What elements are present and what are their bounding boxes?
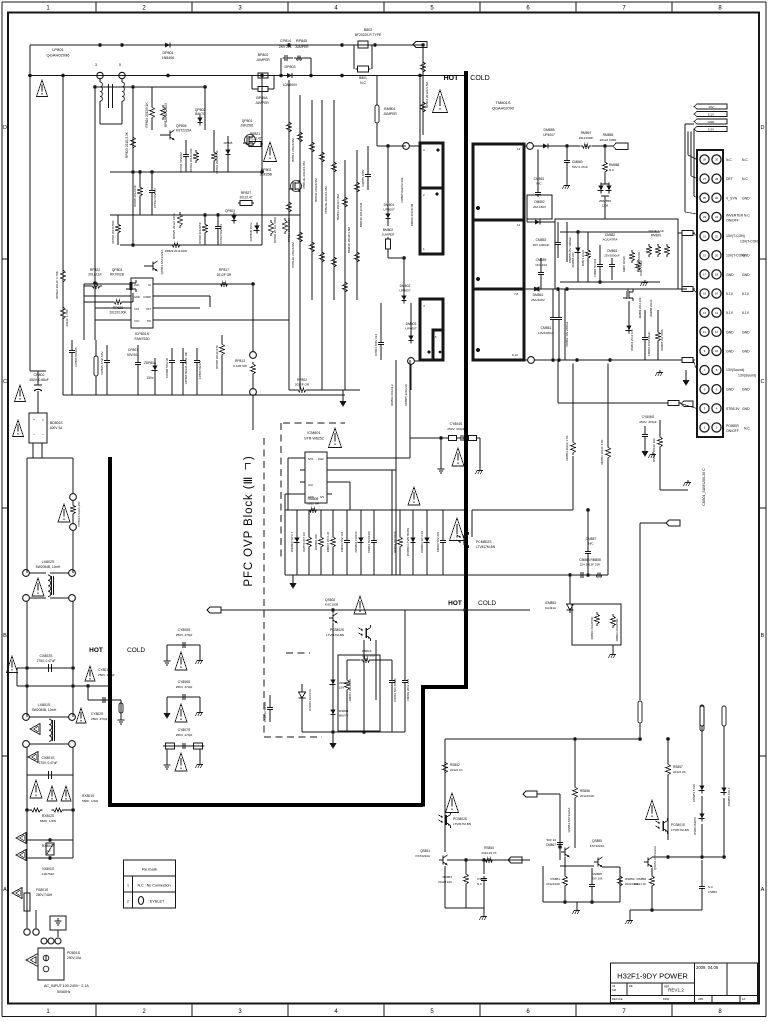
svg-text:ZDM856 24V: ZDM856 24V xyxy=(571,252,575,268)
svg-text:RM756 807 1/8: RM756 807 1/8 xyxy=(302,532,306,552)
svg-text:SW2054B, 12mH: SW2054B, 12mH xyxy=(32,708,57,712)
svg-text:APR: APR xyxy=(698,997,703,1001)
svg-text:15Vz: 15Vz xyxy=(146,376,154,380)
svg-text:CX802S: CX802S xyxy=(39,654,53,658)
wire xyxy=(333,100,335,300)
svg-text:□: □ xyxy=(42,418,44,422)
svg-text:RP836 2012F/56K: RP836 2012F/56K xyxy=(111,220,115,243)
eyelet (chain B) xyxy=(722,706,726,786)
capacitor CM851 xyxy=(534,149,545,197)
thermistor NT801S xyxy=(70,494,81,531)
transistor QM801 xyxy=(623,289,653,318)
svg-text:GND: GND xyxy=(742,196,750,200)
wire xyxy=(375,640,377,700)
resistor RP802 xyxy=(289,378,360,392)
component CM801 xyxy=(367,510,377,575)
diode DS801 xyxy=(330,707,348,718)
svg-text:Drain: Drain xyxy=(318,458,325,461)
svg-text:N.C: N.C xyxy=(477,882,482,886)
svg-text:COLD: COLD xyxy=(478,600,496,607)
svg-text:RS859: RS859 xyxy=(625,877,635,881)
resistor RP824 xyxy=(145,87,154,130)
svg-text:CP814: CP814 xyxy=(280,39,291,43)
diode DM861 xyxy=(531,286,546,302)
svg-text:RS890 2012F 10K: RS890 2012F 10K xyxy=(652,438,656,462)
svg-text:~: ~ xyxy=(33,433,35,437)
svg-text:CP805 47uF 50V: CP805 47uF 50V xyxy=(100,351,104,374)
svg-text:RM862 2012F50K: RM862 2012F50K xyxy=(615,619,619,642)
svg-text:2SK2581: 2SK2581 xyxy=(240,124,253,128)
net tag (13V) xyxy=(613,143,628,150)
wire bus (ICM801 upper) xyxy=(285,509,465,511)
svg-text:N.C: N.C xyxy=(708,885,713,889)
svg-text:QP804 KST2222A: QP804 KST2222A xyxy=(160,250,164,275)
svg-text:RM855: RM855 xyxy=(603,133,614,137)
wire ICM801 left xyxy=(285,458,300,510)
svg-text:2012F 4.70K: 2012F 4.70K xyxy=(65,309,69,326)
warning marks (RX group) xyxy=(30,780,71,801)
svg-text:250V,T4AH: 250V,T4AH xyxy=(36,893,53,897)
svg-text:RP826 2012/223: RP826 2012/223 xyxy=(164,103,168,127)
svg-text:224 2012F 22K: 224 2012F 22K xyxy=(580,563,601,567)
svg-text:RM86B 2012F: RM86B 2012F xyxy=(649,299,653,317)
svg-text:QS853 KST2222A: QS853 KST2222A xyxy=(567,808,571,833)
svg-text:RP830 20 EU 600K: RP830 20 EU 600K xyxy=(273,217,277,243)
capacitor CM865 xyxy=(589,868,603,902)
warning mark (CY806S) xyxy=(175,704,187,722)
warning mark (CP802) xyxy=(15,385,26,402)
svg-text:1: 1 xyxy=(127,884,129,888)
svg-text:C: C xyxy=(761,379,765,385)
svg-text:N.C: N.C xyxy=(726,158,732,162)
warning mark (FS801S) xyxy=(12,888,22,899)
svg-text:BM84C 2012F1.5M: BM84C 2012F1.5M xyxy=(347,226,351,253)
jumper BP80A xyxy=(252,76,274,106)
resistor chain BM84D xyxy=(355,180,363,264)
svg-text:DP803: DP803 xyxy=(285,65,296,69)
capacitor CP814 xyxy=(279,55,293,77)
svg-text:2012F OR: 2012F OR xyxy=(295,383,310,387)
svg-text:DRW: DRW xyxy=(663,997,670,1001)
diode DM851 xyxy=(527,219,555,225)
svg-text:10A 600V: 10A 600V xyxy=(283,83,298,87)
ic ICM853 KA431A xyxy=(545,575,574,613)
dashed block border xyxy=(264,423,345,737)
resistor RS853 xyxy=(438,860,468,908)
wire bus (ICM801 lower) xyxy=(285,574,465,576)
svg-text:DI: DI xyxy=(148,283,151,287)
HOT label (top) xyxy=(444,75,460,82)
resistor RS859 xyxy=(618,874,639,888)
svg-text:JUMPER: JUMPER xyxy=(383,112,397,116)
transistor QS802 xyxy=(325,598,339,623)
diode DM855 xyxy=(533,128,580,149)
svg-text:RS857: RS857 xyxy=(673,765,683,769)
ground arrow (conn rail) xyxy=(683,370,690,386)
svg-text:2012J 2K: 2012J 2K xyxy=(673,770,686,774)
capacitor CM867 xyxy=(546,838,563,849)
svg-text:PFC OVP Block (Ⅲ ㄱ): PFC OVP Block (Ⅲ ㄱ) xyxy=(243,455,255,586)
svg-text:UP4007: UP4007 xyxy=(399,289,410,293)
svg-text:GND: GND xyxy=(742,330,750,334)
svg-text:RP821: RP821 xyxy=(250,132,260,136)
svg-text:KA431A: KA431A xyxy=(545,606,556,610)
wire RM805 xyxy=(392,360,410,575)
svg-text:CY806G: CY806G xyxy=(642,415,655,419)
ground (CY804S left) xyxy=(438,436,445,473)
svg-text:RM869 2012-100: RM869 2012-100 xyxy=(638,297,642,318)
svg-text:RP822: RP822 xyxy=(90,268,100,272)
resistor (conn row5) xyxy=(680,231,697,237)
resistor chain BP8F6 xyxy=(421,45,429,135)
svg-text:FAN7530: FAN7530 xyxy=(135,337,150,341)
svg-text:RM868: RM868 xyxy=(609,163,620,167)
resistor (conn row14) xyxy=(666,401,697,409)
wire (GND rail) xyxy=(534,358,667,362)
svg-text:CM863: CM863 xyxy=(607,249,618,253)
svg-text:BP846 2012F/1M: BP846 2012F/1M xyxy=(314,178,318,202)
AC_INPUT label xyxy=(44,984,89,994)
wire xyxy=(356,150,358,300)
svg-text:RM871 1/8W: RM871 1/8W xyxy=(639,260,643,276)
jumper pill (PFC bus) xyxy=(94,340,98,395)
wire ICM801 vcc xyxy=(332,430,396,470)
svg-text:VCC: VCC xyxy=(308,484,313,487)
zener ZDM856 xyxy=(571,232,581,282)
wires flags to connector xyxy=(685,124,697,214)
resistor RM855 xyxy=(592,133,617,146)
svg-text:BM801: BM801 xyxy=(384,107,395,111)
svg-text:2012J 1K: 2012J 1K xyxy=(450,768,463,772)
svg-text:RM856 2012F 6.8K: RM856 2012F 6.8K xyxy=(600,439,604,464)
svg-text:CY807S: CY807S xyxy=(178,728,191,732)
svg-text:GND: GND xyxy=(742,388,750,392)
svg-text:ZDM801 N/C: ZDM801 N/C xyxy=(314,534,318,550)
eyelet (right) xyxy=(700,705,704,752)
jumper BP802 xyxy=(256,53,270,78)
svg-text:25V 106: 25V 106 xyxy=(592,877,603,881)
svg-text:PP813E 2012F/2M: PP813E 2012F/2M xyxy=(291,242,295,268)
svg-text:5.1V: 5.1V xyxy=(742,311,750,315)
svg-text:CAT: CAT xyxy=(134,307,139,311)
svg-text:PB813E 2012F1.8M: PB813E 2012F1.8M xyxy=(302,161,306,189)
svg-text:+: + xyxy=(33,418,35,422)
svg-text:CS801 50V 600uF: CS801 50V 600uF xyxy=(393,678,397,702)
svg-text:DM852: DM852 xyxy=(534,200,545,204)
svg-text:LTV817M-BN: LTV817M-BN xyxy=(326,633,344,637)
svg-text:C: C xyxy=(3,379,7,385)
svg-text:ICP801S: ICP801S xyxy=(135,332,150,336)
svg-text:STB5.3V: STB5.3V xyxy=(726,407,740,411)
ground (CY804S right) xyxy=(476,438,484,474)
svg-text:ICS801 KA431A: ICS801 KA431A xyxy=(308,689,312,711)
capacitor CY802S xyxy=(76,697,125,724)
resistor (left rail) xyxy=(55,268,65,299)
COLD label (middle-left) xyxy=(127,647,145,654)
svg-text:CM801 50V/2200: CM801 50V/2200 xyxy=(367,531,371,553)
resistor B802 xyxy=(355,28,382,48)
wire ICM801 fb xyxy=(332,482,350,510)
capacitor CS851 xyxy=(477,860,487,908)
frame row letters A-D xyxy=(3,125,765,893)
svg-text:13V(Sound): 13V(Sound) xyxy=(726,368,744,372)
svg-text:PCM801 LTV817M-BN: PCM801 LTV817M-BN xyxy=(406,528,410,556)
diode DM806 label xyxy=(410,203,414,226)
COLD label (mid) xyxy=(478,600,496,607)
transformer secondary winding 1 xyxy=(473,144,524,220)
svg-text:250V, 470pf: 250V, 470pf xyxy=(176,733,193,737)
ground (OVP) xyxy=(330,732,337,749)
resistor RS854 xyxy=(481,846,496,862)
warning mark (LX801S) xyxy=(30,724,40,735)
capacitor CS801 xyxy=(389,660,397,732)
svg-text:RS858: RS858 xyxy=(637,877,647,881)
svg-text:2012F 3.1K: 2012F 3.1K xyxy=(648,229,664,233)
resistor RP821 xyxy=(247,132,263,147)
capacitor CS853 xyxy=(699,860,717,910)
wire xyxy=(204,87,206,130)
svg-text:9,10: 9,10 xyxy=(512,353,518,357)
warning mark (CY805S) xyxy=(175,652,187,670)
svg-text:0.12R 5W: 0.12R 5W xyxy=(233,364,247,368)
resistor RP835 xyxy=(133,172,142,215)
svg-text:VX801S: VX801S xyxy=(42,867,55,871)
svg-text:COMP: COMP xyxy=(143,295,151,299)
warning mark QP801 xyxy=(264,142,277,162)
title block box xyxy=(611,963,758,1003)
wire xyxy=(332,623,334,732)
title date xyxy=(696,965,719,970)
resistor RP831 xyxy=(283,218,291,243)
eyelet (chain A) xyxy=(700,706,704,784)
resistor chain BM841 xyxy=(332,160,340,269)
svg-text:INVERTER N.C: INVERTER N.C xyxy=(726,213,750,217)
optocoupler PCS801S xyxy=(656,818,689,834)
ic ICM862 block box xyxy=(555,219,678,289)
svg-text:19: 19 xyxy=(703,253,707,257)
svg-text:10: 10 xyxy=(715,349,719,353)
svg-text:KST2222A: KST2222A xyxy=(415,854,430,858)
capacitor CM857 xyxy=(585,508,596,575)
transistor QS855 xyxy=(590,839,605,867)
svg-text:ZDM804 1W 6.2V: ZDM804 1W 6.2V xyxy=(420,531,424,553)
wire (ICM862 inner) xyxy=(560,230,660,284)
svg-text:ZCD: ZCD xyxy=(134,283,139,287)
capacitor CY806S xyxy=(164,680,204,719)
resistor RP827 xyxy=(238,191,254,206)
svg-text:COLD: COLD xyxy=(470,75,489,82)
op-amp ICP801S FAN7530 box xyxy=(126,278,158,328)
svg-text:AC_INPUT 100-240V~ 2.1A: AC_INPUT 100-240V~ 2.1A xyxy=(44,984,89,988)
svg-text:RM804 2012/10K: RM804 2012/10K xyxy=(393,531,397,553)
fuse DM852 xyxy=(527,195,552,219)
HOT label (mid) xyxy=(448,600,462,607)
svg-text:2012J,1K: 2012J,1K xyxy=(88,273,102,277)
svg-text:NT801S 5ohm,25c: NT801S 5ohm,25c xyxy=(77,501,81,527)
ground (CM860) xyxy=(563,183,571,189)
resistor RP828 xyxy=(84,293,133,315)
transistor QS853 xyxy=(561,808,571,858)
resistor RM872 xyxy=(581,232,590,282)
svg-text:CY804S: CY804S xyxy=(450,422,463,426)
svg-text:BP816 2012F/2M: BP816 2012F/2M xyxy=(291,138,295,162)
legend box xyxy=(124,860,176,908)
svg-text:2012 0R: 2012 0R xyxy=(307,502,319,506)
svg-text:UP4007: UP4007 xyxy=(543,133,555,137)
svg-text:PCS802S: PCS802S xyxy=(453,817,467,821)
svg-text:RP835 2012J/3K: RP835 2012J/3K xyxy=(133,185,137,206)
capacitor CP805 xyxy=(100,345,110,395)
svg-text:CP80B 50V/4R: CP80B 50V/4R xyxy=(165,358,169,378)
diode DM805 label xyxy=(400,177,404,202)
transistor QP802 2SK258 xyxy=(260,168,302,192)
wire right rail xyxy=(72,458,74,494)
svg-text:14D751K: 14D751K xyxy=(42,872,56,876)
capacitor CP807 xyxy=(127,345,141,395)
wire xyxy=(288,80,290,390)
svg-text:S/OL: S/OL xyxy=(308,458,314,461)
title rev xyxy=(612,984,746,1001)
wire xyxy=(110,170,230,217)
resistor RX804S xyxy=(27,840,73,853)
resistor RS851 xyxy=(546,857,567,902)
zener ZDS801 xyxy=(329,677,350,690)
AC plug pins xyxy=(24,910,61,944)
capacitor CM85B xyxy=(567,222,572,263)
svg-text:2012J/30K: 2012J/30K xyxy=(579,136,595,140)
capacitor CY806G xyxy=(639,415,657,458)
HOT label (middle-left) xyxy=(89,647,103,654)
svg-text:275V, 0.47uF: 275V, 0.47uF xyxy=(37,659,56,663)
wire xyxy=(444,739,446,852)
svg-text:DP801: DP801 xyxy=(163,51,174,55)
resistor RP836 xyxy=(111,215,120,245)
svg-text:FS801S: FS801S xyxy=(36,888,49,892)
wire xyxy=(377,144,406,148)
svg-text:DM801: DM801 xyxy=(384,203,395,207)
svg-text:2012J 1K: 2012J 1K xyxy=(634,882,646,886)
svg-text:29: 29 xyxy=(703,158,707,162)
svg-text:DM855: DM855 xyxy=(544,128,555,132)
title block lines xyxy=(611,963,758,1003)
warning mark (PCS801S) xyxy=(646,800,659,820)
ground (ICM801) xyxy=(290,575,297,589)
svg-text:B: B xyxy=(761,633,765,639)
wire xyxy=(94,87,96,320)
warning mark (BD801) xyxy=(13,420,24,437)
svg-text:30: 30 xyxy=(715,158,719,162)
warning mark (NT801S) xyxy=(58,504,70,522)
resistor RP817 xyxy=(217,268,232,286)
net flags (above connector) xyxy=(694,104,727,132)
warning mark (VX801S) xyxy=(16,850,26,861)
svg-text:VST: VST xyxy=(146,307,151,311)
wire xyxy=(543,866,620,904)
svg-text:CP813 50V/333: CP813 50V/333 xyxy=(219,224,223,244)
svg-text:RK7002B: RK7002B xyxy=(110,273,124,277)
svg-text:QGAH02090: QGAH02090 xyxy=(492,107,514,111)
svg-text:RP825 2012J 100E: RP825 2012J 100E xyxy=(172,213,176,239)
capacitor CP80B xyxy=(165,348,175,395)
svg-text:CM865: CM865 xyxy=(592,872,602,876)
svg-text:26: 26 xyxy=(715,196,719,200)
transformer secondary winding 3 xyxy=(473,289,524,360)
svg-text:RS854: RS854 xyxy=(484,846,494,850)
ic ICM801 xyxy=(300,452,332,503)
capacitor CY805S xyxy=(164,628,204,665)
svg-text:24: 24 xyxy=(715,215,719,219)
svg-text:CS853: CS853 xyxy=(708,890,717,894)
ground (QS851) xyxy=(480,908,488,920)
svg-text:Re mark: Re mark xyxy=(142,867,157,872)
svg-text:LTV817M-BN: LTV817M-BN xyxy=(453,822,471,826)
capacitor CY801S xyxy=(85,666,115,700)
diode QP802 BAV70 xyxy=(195,108,206,125)
svg-text:13V(Sound): 13V(Sound) xyxy=(738,374,756,378)
svg-text:QP803: QP803 xyxy=(225,209,235,213)
svg-text:GND: GND xyxy=(726,330,734,334)
connector CN801 body xyxy=(697,150,723,437)
svg-text:D: D xyxy=(761,125,765,131)
svg-text:N.C: N.C xyxy=(609,168,615,172)
zener ZDP80A xyxy=(144,358,158,395)
fuse FS801S xyxy=(24,888,53,928)
resistor RX802S xyxy=(25,808,75,823)
svg-text:CP811 50V/102: CP811 50V/102 xyxy=(179,152,183,172)
svg-text:RM872 2012F: RM872 2012F xyxy=(581,249,585,266)
resistor RM868 xyxy=(603,144,620,174)
svg-text:RP808 2012F/47K: RP808 2012F/47K xyxy=(215,345,219,369)
svg-text:~: ~ xyxy=(42,433,44,437)
transformer secondary winding 2 xyxy=(473,220,524,289)
svg-text:CX801S: CX801S xyxy=(41,756,55,760)
resistor RP833 xyxy=(189,148,198,171)
svg-text:2012J/10K: 2012J/10K xyxy=(546,882,560,886)
wire RM802 xyxy=(390,360,396,575)
jumper BM802 xyxy=(382,221,395,258)
svg-text:RS856: RS856 xyxy=(580,789,590,793)
ground (QS854) xyxy=(626,910,634,924)
component ZDM804 xyxy=(420,510,430,575)
capacitor CP802 xyxy=(30,371,46,402)
svg-text:QS854 KST2222A: QS854 KST2222A xyxy=(653,846,657,870)
svg-text:10V2200uF: 10V2200uF xyxy=(538,331,554,335)
svg-text:RS814: RS814 xyxy=(362,649,372,653)
svg-text:CM857: CM857 xyxy=(586,537,597,541)
svg-text:ZDM852 10V Z: ZDM852 10V Z xyxy=(727,787,731,806)
svg-text:RP824 2012/5.1K: RP824 2012/5.1K xyxy=(145,102,149,128)
capacitor CP813 xyxy=(215,215,223,245)
svg-text:N.C: N.C xyxy=(360,81,366,85)
svg-text:BM802: BM802 xyxy=(383,228,394,232)
svg-text:CY805S: CY805S xyxy=(178,628,191,632)
net tag (top bus) xyxy=(413,42,427,48)
svg-text:5.1V: 5.1V xyxy=(726,292,734,296)
svg-text:RP8E6 2012F 4.70K: RP8E6 2012F 4.70K xyxy=(55,271,59,299)
svg-text:GND: GND xyxy=(726,349,734,353)
svg-text:DM802: DM802 xyxy=(400,284,411,288)
warning mark (QS802) xyxy=(354,596,366,614)
svg-text:21: 21 xyxy=(703,234,707,238)
svg-text:250V,10A: 250V,10A xyxy=(67,956,82,960)
svg-text:HOT: HOT xyxy=(89,647,103,654)
wire bottom bus xyxy=(445,737,642,741)
svg-text:12: 12 xyxy=(715,330,719,334)
svg-text:REF: REF xyxy=(664,985,670,989)
warning mark (PD801S) xyxy=(26,953,38,966)
resistor RM853 xyxy=(565,363,575,510)
svg-text:50V/104: 50V/104 xyxy=(127,353,139,357)
